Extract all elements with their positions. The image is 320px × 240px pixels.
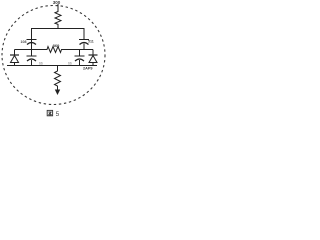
svg-text:5: 5 [56, 111, 60, 118]
svg-text:66: 66 [68, 62, 72, 66]
svg-text:300: 300 [53, 0, 61, 5]
svg-text:511: 511 [88, 40, 94, 44]
svg-text:860: 860 [53, 43, 60, 48]
svg-text:108: 108 [21, 40, 27, 44]
svg-text:66: 66 [39, 62, 43, 66]
svg-text:2AP9: 2AP9 [83, 67, 93, 71]
